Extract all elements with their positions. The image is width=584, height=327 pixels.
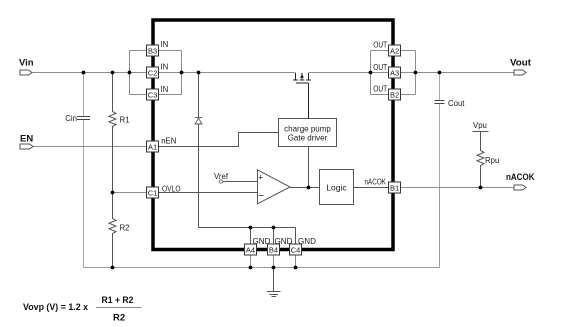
svg-text:B2: B2 — [390, 90, 399, 99]
svg-text:nACOK: nACOK — [365, 178, 387, 187]
svg-text:EN: EN — [20, 134, 33, 145]
svg-text:Logic: Logic — [326, 183, 347, 193]
svg-text:IN: IN — [161, 63, 169, 72]
svg-text:OVLO: OVLO — [162, 184, 181, 193]
svg-text:GND: GND — [275, 237, 293, 246]
svg-text:OUT: OUT — [373, 85, 387, 94]
svg-text:Cin: Cin — [65, 114, 77, 123]
svg-text:B4: B4 — [269, 245, 278, 254]
svg-text:nEN: nEN — [161, 136, 176, 145]
svg-text:GND: GND — [253, 237, 271, 246]
svg-text:A4: A4 — [246, 245, 255, 254]
svg-text:Gate driver: Gate driver — [288, 134, 328, 143]
svg-text:Cout: Cout — [448, 99, 465, 108]
svg-text:OUT: OUT — [373, 41, 387, 50]
svg-text:IN: IN — [161, 40, 169, 49]
svg-text:R1: R1 — [120, 115, 130, 124]
svg-text:charge pump: charge pump — [284, 125, 331, 134]
svg-text:+: + — [258, 173, 263, 183]
svg-text:A2: A2 — [390, 46, 399, 55]
svg-text:R2: R2 — [120, 224, 130, 233]
svg-text:B1: B1 — [390, 183, 399, 192]
svg-text:C3: C3 — [148, 90, 158, 99]
svg-text:Vout: Vout — [510, 57, 532, 68]
svg-text:B3: B3 — [148, 46, 157, 55]
svg-text:Vref: Vref — [214, 172, 229, 181]
svg-text:Vin: Vin — [19, 58, 34, 69]
svg-text:GND: GND — [298, 237, 316, 246]
svg-text:Vovp (V) = 1.2 x: Vovp (V) = 1.2 x — [23, 302, 89, 313]
svg-text:R1 + R2: R1 + R2 — [102, 295, 134, 306]
svg-text:OUT: OUT — [373, 63, 387, 72]
svg-text:Vpu: Vpu — [473, 121, 487, 130]
svg-text:C2: C2 — [148, 68, 158, 77]
svg-text:IN: IN — [161, 85, 169, 94]
svg-text:−: − — [258, 191, 264, 202]
svg-text:A3: A3 — [390, 68, 399, 77]
svg-text:Rpu: Rpu — [485, 156, 499, 165]
svg-text:nACOK: nACOK — [506, 172, 535, 183]
svg-text:C1: C1 — [148, 188, 158, 197]
svg-text:R2: R2 — [113, 313, 125, 324]
svg-text:C4: C4 — [291, 245, 301, 254]
svg-text:A1: A1 — [148, 142, 157, 151]
